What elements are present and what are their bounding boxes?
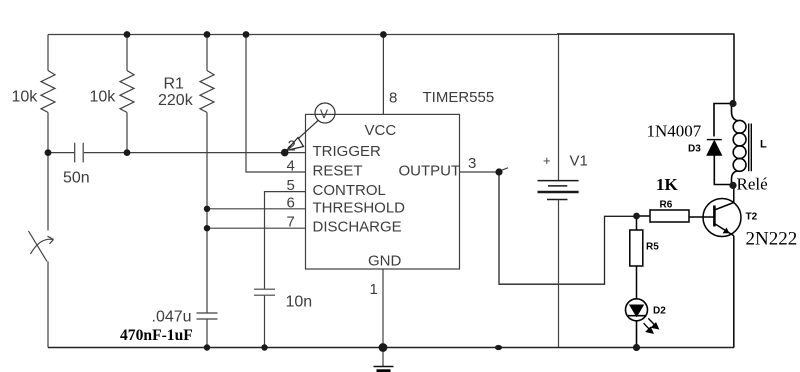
node threshold / R1 <box>204 206 210 212</box>
wire trigger line left <box>48 152 74 154</box>
svg-text:R5: R5 <box>646 241 659 252</box>
probe V circle on pin 2 <box>315 103 335 123</box>
svg-text:10k: 10k <box>90 89 117 106</box>
resistor R1 zigzag <box>200 71 214 113</box>
node R6 / R5 <box>633 213 640 220</box>
inductor L relay coil <box>732 104 752 186</box>
svg-text:THRESHOLD: THRESHOLD <box>313 199 406 216</box>
LED light arrows <box>644 318 659 333</box>
svg-text:7: 7 <box>287 214 295 231</box>
svg-text:+: + <box>543 153 551 168</box>
svg-text:DISCHARGE: DISCHARGE <box>313 219 402 236</box>
node dots <box>45 31 737 352</box>
node bottom rail / C-047 <box>204 344 210 350</box>
svg-text:T2: T2 <box>746 211 758 222</box>
resistor 10k left lead top <box>47 35 49 71</box>
svg-text:1K: 1K <box>656 175 679 194</box>
wire reset from rail <box>246 35 306 173</box>
wire top rail <box>48 34 557 36</box>
resistor R1 lead top <box>206 35 208 71</box>
node top rail / reset wire <box>243 31 250 38</box>
capacitor 10n plates <box>254 289 275 295</box>
node top rail / 10k2 <box>124 31 131 38</box>
svg-text:1N4007: 1N4007 <box>647 122 702 141</box>
node top rail / pin8 <box>380 31 387 38</box>
resistor 10k second lead bottom <box>126 112 128 152</box>
svg-text:3: 3 <box>468 155 476 172</box>
transistor T2 2N222 <box>689 185 741 347</box>
ground symbol <box>382 348 384 367</box>
wire V1 top lead <box>558 35 560 181</box>
LED D2 <box>626 299 648 348</box>
resistor R6 box <box>637 210 690 222</box>
svg-text:TIMER555: TIMER555 <box>423 89 495 106</box>
wire V1 bottom lead <box>558 200 560 348</box>
wire pin8 vcc <box>382 35 384 115</box>
svg-text:6: 6 <box>287 195 295 212</box>
resistor 10k second lead top <box>126 35 128 71</box>
node bottom rail / output path <box>495 345 502 350</box>
transistor emitter arrowhead <box>723 228 730 234</box>
svg-text:R1: R1 <box>164 76 185 93</box>
svg-text:RESET: RESET <box>313 163 363 180</box>
wire cap C-047 to bottom rail <box>206 320 208 348</box>
svg-text:OUTPUT: OUTPUT <box>399 163 461 180</box>
node trigger / 10k1 <box>45 149 52 156</box>
svg-text:.047u: .047u <box>152 309 192 326</box>
wire pin1 gnd <box>382 269 384 348</box>
svg-text:TRIGGER: TRIGGER <box>313 143 382 160</box>
svg-text:470nF-1uF: 470nF-1uF <box>120 327 193 344</box>
resistor R5 box <box>630 216 643 299</box>
svg-text:10n: 10n <box>286 294 313 311</box>
svg-text:4: 4 <box>287 158 295 175</box>
svg-text:R6: R6 <box>660 199 673 210</box>
svg-text:VCC: VCC <box>365 122 397 139</box>
node trigger pin2 <box>281 149 289 157</box>
svg-text:50n: 50n <box>63 170 90 187</box>
node trigger / 10k2 <box>124 149 131 156</box>
wire relay branch top vertical <box>733 34 735 104</box>
wire 10n cap to bottom rail <box>264 296 266 348</box>
node ground junction <box>379 343 388 352</box>
svg-text:V1: V1 <box>570 153 588 170</box>
svg-text:L: L <box>760 138 767 150</box>
svg-text:GND: GND <box>368 253 402 270</box>
probe open arrowhead at pin2 <box>287 138 304 151</box>
resistor 10k left zigzag <box>41 71 55 113</box>
node output pin3 <box>495 168 502 175</box>
battery V1 plates <box>538 181 579 200</box>
capacitor 50n plates <box>75 143 84 163</box>
svg-text:CONTROL: CONTROL <box>313 182 386 199</box>
wire pin3 output <box>460 171 500 173</box>
svg-text:8: 8 <box>389 90 397 107</box>
svg-text:2: 2 <box>288 137 296 154</box>
wire trigger line right <box>84 152 306 154</box>
inductor core bars <box>749 124 752 172</box>
wire output tick <box>500 168 509 171</box>
wire bottom rail <box>48 347 734 349</box>
wire output path to R6 node <box>499 172 637 284</box>
node top rail / R1 <box>204 31 211 38</box>
IC U1 TIMER555 box <box>306 114 460 269</box>
svg-text:D2: D2 <box>653 305 666 316</box>
wire switch top lead <box>47 153 49 231</box>
wire pin5 control to 10n cap <box>265 192 306 289</box>
node bottom rail / LED <box>633 344 640 351</box>
node relay top <box>729 100 736 107</box>
svg-text:220k: 220k <box>158 92 194 109</box>
node relay bottom / collector <box>729 182 736 189</box>
svg-text:2N222: 2N222 <box>746 229 798 250</box>
probe diagonal line <box>288 121 318 149</box>
svg-text:10k: 10k <box>12 89 39 106</box>
wire pin7 discharge <box>207 227 306 229</box>
switch motion arc with arrow <box>31 239 54 254</box>
svg-text:5: 5 <box>287 177 295 194</box>
wire top rail right (darker) <box>557 33 735 35</box>
diode D3 1N4007 <box>707 104 733 185</box>
resistor 10k second zigzag <box>120 71 134 113</box>
node discharge / R1 <box>204 225 210 231</box>
svg-text:1: 1 <box>370 281 378 298</box>
wire switch bottom lead <box>47 262 49 348</box>
node bottom rail / 10n <box>261 344 267 350</box>
resistor 10k left lead bottom <box>47 112 49 152</box>
wire pin6 threshold <box>207 208 306 210</box>
switch lever <box>29 231 48 262</box>
svg-text:V: V <box>320 107 328 121</box>
wire R1 bottom to cap C-047 <box>206 112 208 312</box>
svg-text:Relé: Relé <box>737 175 768 194</box>
svg-text:D3: D3 <box>688 144 701 155</box>
capacitor C-047 plates <box>197 313 218 319</box>
